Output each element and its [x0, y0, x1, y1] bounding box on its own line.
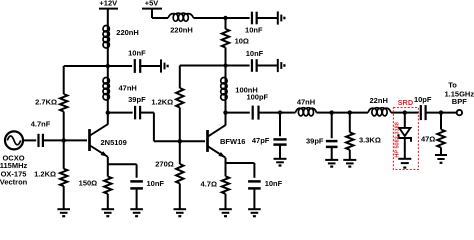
svg-text:39pF: 39pF	[306, 137, 324, 146]
svg-text:HP 5082-3188: HP 5082-3188	[394, 122, 400, 157]
svg-text:10nF: 10nF	[128, 49, 146, 58]
svg-text:BPF: BPF	[452, 97, 467, 106]
svg-text:47Ω: 47Ω	[421, 134, 435, 143]
svg-text:2N5109: 2N5109	[101, 138, 127, 147]
svg-text:SRD: SRD	[398, 98, 413, 107]
svg-text:47pF: 47pF	[252, 136, 270, 145]
svg-text:22nH: 22nH	[370, 96, 388, 105]
svg-text:10Ω: 10Ω	[235, 36, 249, 45]
svg-text:47nH: 47nH	[119, 84, 137, 93]
svg-text:3.3KΩ: 3.3KΩ	[359, 136, 381, 145]
svg-text:+5V: +5V	[145, 0, 159, 8]
svg-text:220nH: 220nH	[170, 26, 193, 35]
svg-text:4.7nF: 4.7nF	[31, 120, 51, 129]
svg-text:+12V: +12V	[99, 0, 117, 8]
svg-text:2.7KΩ: 2.7KΩ	[35, 97, 57, 106]
svg-text:270Ω: 270Ω	[155, 159, 174, 168]
svg-text:Vectron: Vectron	[0, 177, 28, 186]
svg-text:10pF: 10pF	[414, 95, 432, 104]
svg-text:BFW16: BFW16	[220, 137, 245, 146]
svg-text:10nF: 10nF	[245, 25, 263, 34]
svg-text:10nF: 10nF	[265, 179, 283, 188]
svg-text:10nF: 10nF	[246, 49, 264, 58]
svg-text:To: To	[448, 81, 457, 90]
svg-text:220nH: 220nH	[116, 28, 139, 37]
svg-text:4.7Ω: 4.7Ω	[201, 179, 217, 188]
svg-text:1.2KΩ: 1.2KΩ	[151, 98, 173, 107]
svg-text:47nH: 47nH	[297, 97, 315, 106]
svg-text:100pF: 100pF	[246, 93, 268, 102]
svg-text:150Ω: 150Ω	[79, 178, 98, 187]
svg-text:1.2KΩ: 1.2KΩ	[34, 169, 56, 178]
svg-text:39pF: 39pF	[128, 95, 146, 104]
svg-text:10nF: 10nF	[147, 179, 165, 188]
